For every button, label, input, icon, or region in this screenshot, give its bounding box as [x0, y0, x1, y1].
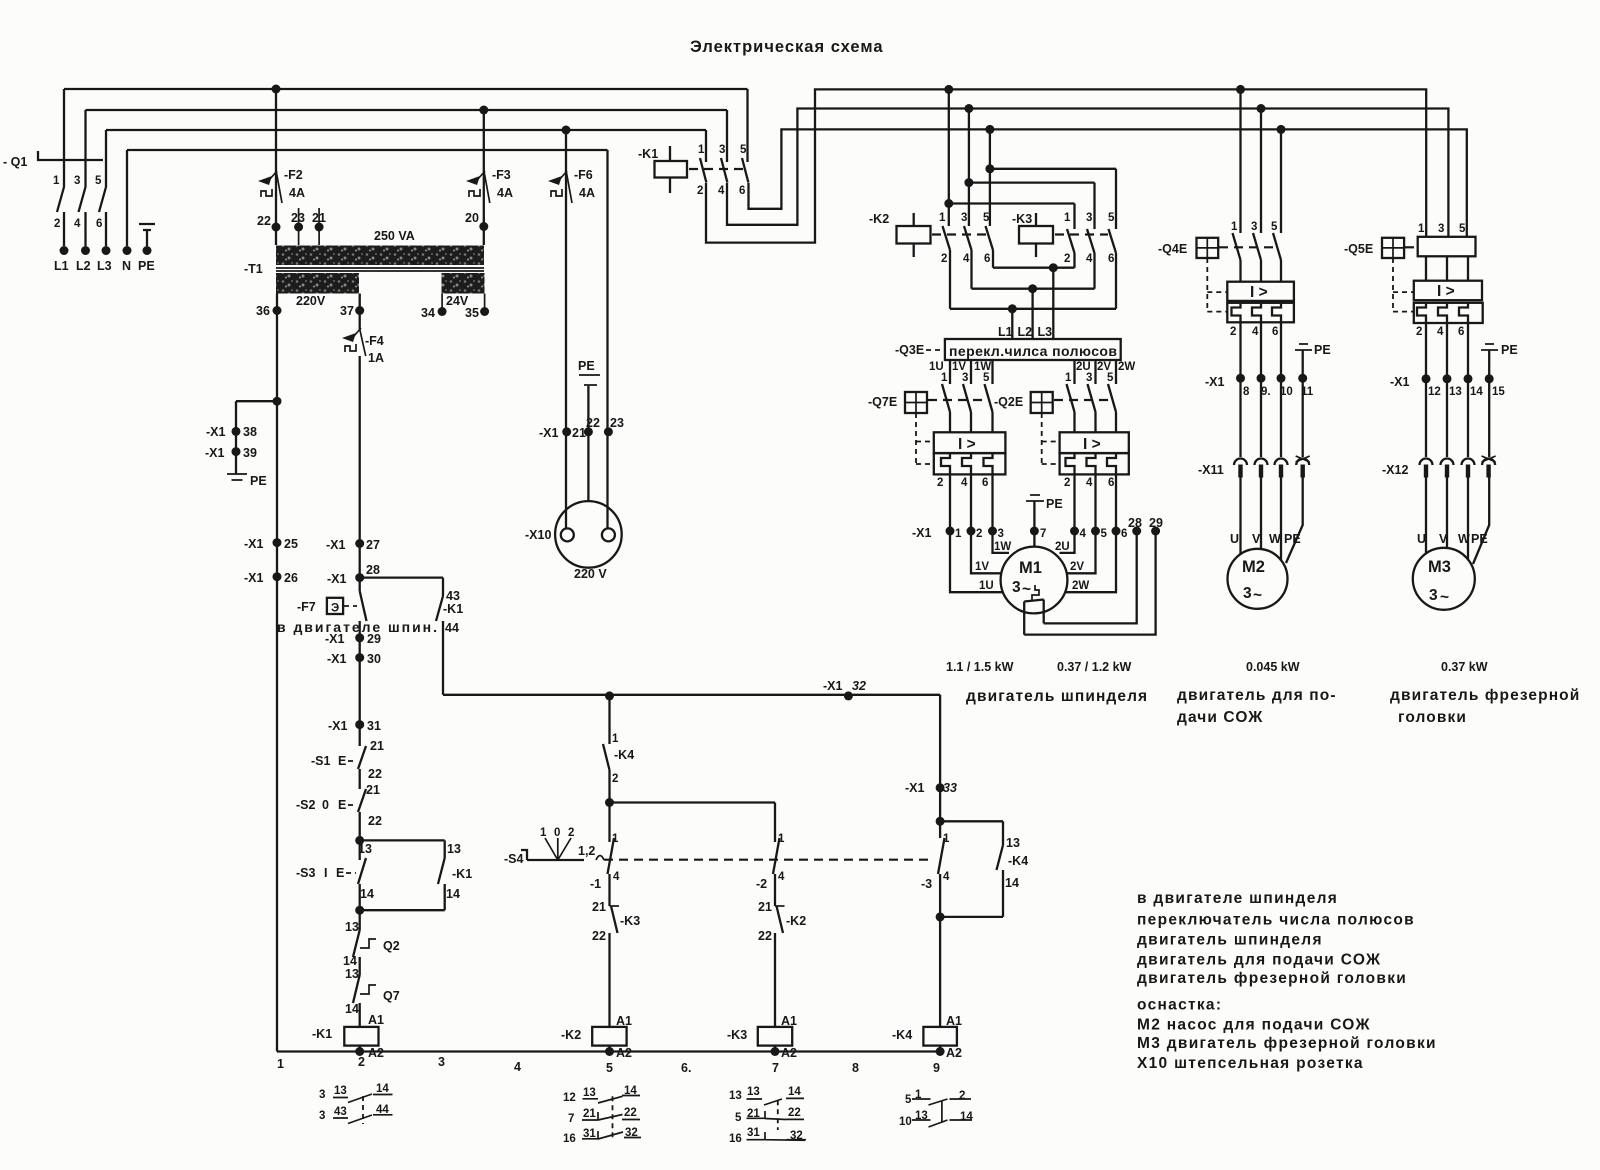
svg-text:I >: I >	[958, 436, 976, 453]
svg-text:0: 0	[322, 798, 329, 812]
svg-text:U: U	[1417, 532, 1426, 546]
svg-text:4: 4	[778, 871, 785, 883]
svg-text:N: N	[122, 259, 131, 273]
svg-text:-X1: -X1	[539, 426, 559, 440]
svg-text:13: 13	[915, 1110, 928, 1122]
svg-text:220 V: 220 V	[574, 567, 607, 581]
svg-text:22: 22	[592, 929, 606, 943]
svg-text:4A: 4A	[579, 186, 595, 200]
svg-text:V: V	[1439, 532, 1448, 546]
svg-text:-K4: -K4	[1008, 854, 1028, 868]
svg-text:2U: 2U	[1055, 541, 1070, 553]
svg-text:Q2: Q2	[383, 939, 400, 953]
svg-text:2: 2	[697, 185, 703, 197]
svg-text:M3: M3	[1428, 558, 1451, 576]
svg-text:2: 2	[937, 477, 943, 489]
svg-text:-F4: -F4	[365, 334, 384, 348]
svg-text:5: 5	[1108, 212, 1115, 224]
svg-text:14: 14	[343, 954, 357, 968]
svg-text:-S3: -S3	[296, 866, 316, 880]
svg-text:1: 1	[53, 175, 60, 187]
svg-text:43: 43	[446, 589, 460, 603]
svg-text:-Q5Ε: -Q5Ε	[1344, 242, 1373, 256]
svg-text:-K1: -K1	[452, 867, 472, 881]
svg-text:5: 5	[1101, 528, 1108, 540]
svg-text:32: 32	[852, 679, 866, 693]
svg-text:оснастка:: оснастка:	[1137, 997, 1222, 1014]
svg-text:PE: PE	[1314, 343, 1331, 357]
svg-text:-F3: -F3	[492, 168, 511, 182]
svg-text:-X1: -X1	[1390, 375, 1410, 389]
svg-text:PE: PE	[1501, 343, 1518, 357]
svg-text:1,2: 1,2	[578, 844, 595, 858]
svg-text:13: 13	[334, 1085, 347, 1097]
svg-text:-X11: -X11	[1198, 463, 1224, 477]
svg-text:2: 2	[1064, 253, 1070, 265]
svg-text:32: 32	[790, 1130, 803, 1142]
svg-text:6: 6	[1121, 528, 1127, 540]
svg-text:X10 штепсельная розетка: X10 штепсельная розетка	[1137, 1055, 1364, 1072]
svg-text:0.37 kW: 0.37 kW	[1441, 660, 1488, 674]
svg-text:4: 4	[74, 218, 81, 230]
svg-text:2: 2	[1064, 477, 1070, 489]
svg-text:38: 38	[243, 425, 257, 439]
svg-text:6: 6	[984, 253, 990, 265]
svg-text:М3 двигатель фрезерной головки: М3 двигатель фрезерной головки	[1137, 1035, 1437, 1052]
svg-text:3: 3	[1438, 223, 1444, 235]
svg-text:13: 13	[345, 920, 359, 934]
svg-text:22: 22	[624, 1107, 637, 1119]
svg-text:1: 1	[612, 733, 619, 745]
svg-text:-K1: -K1	[312, 1027, 332, 1041]
svg-text:36: 36	[256, 304, 270, 318]
svg-text:3: 3	[1243, 585, 1252, 602]
svg-text:31: 31	[367, 719, 381, 733]
svg-text:5: 5	[983, 372, 990, 384]
svg-text:1U: 1U	[979, 580, 994, 592]
svg-text:6: 6	[1108, 477, 1114, 489]
svg-text:43: 43	[334, 1106, 347, 1118]
svg-text:-X12: -X12	[1382, 463, 1408, 477]
svg-text:~: ~	[1253, 587, 1262, 604]
svg-text:3: 3	[319, 1110, 325, 1122]
svg-text:29: 29	[367, 632, 381, 646]
svg-text:21: 21	[370, 739, 384, 753]
svg-text:1: 1	[778, 833, 785, 845]
svg-text:21: 21	[583, 1108, 596, 1120]
svg-text:-X1: -X1	[205, 446, 225, 460]
svg-text:6: 6	[1108, 253, 1114, 265]
svg-text:7: 7	[1040, 528, 1046, 540]
svg-text:-K4: -K4	[614, 748, 634, 762]
svg-text:переключатель числа полюсов: переключатель числа полюсов	[1137, 912, 1415, 929]
svg-text:-T1: -T1	[244, 262, 263, 276]
svg-text:31: 31	[747, 1127, 760, 1139]
svg-text:-2: -2	[756, 877, 767, 891]
svg-text:M2: M2	[1242, 558, 1265, 576]
svg-text:A1: A1	[781, 1014, 797, 1028]
svg-text:1: 1	[955, 528, 962, 540]
svg-text:4: 4	[718, 185, 725, 197]
svg-text:3: 3	[1086, 372, 1092, 384]
svg-text:~: ~	[1440, 589, 1449, 606]
svg-text:1: 1	[939, 212, 946, 224]
svg-text:3: 3	[74, 175, 80, 187]
svg-text:PE: PE	[250, 474, 267, 488]
svg-text:15: 15	[1492, 386, 1505, 398]
svg-text:6: 6	[739, 185, 745, 197]
svg-text:13: 13	[345, 967, 359, 981]
svg-text:22: 22	[788, 1107, 801, 1119]
svg-text:головки: головки	[1398, 709, 1467, 726]
svg-text:21: 21	[747, 1108, 760, 1120]
svg-text:0: 0	[554, 827, 560, 839]
svg-text:4: 4	[613, 871, 620, 883]
svg-text:14: 14	[1470, 386, 1483, 398]
svg-text:-X1: -X1	[1205, 375, 1225, 389]
svg-text:A1: A1	[368, 1013, 384, 1027]
svg-text:5: 5	[983, 212, 990, 224]
svg-text:21: 21	[758, 900, 772, 914]
svg-text:13: 13	[747, 1086, 760, 1098]
svg-text:14: 14	[1005, 876, 1019, 890]
svg-text:7: 7	[568, 1113, 574, 1125]
svg-text:1: 1	[941, 372, 948, 384]
svg-text:3: 3	[1429, 587, 1438, 604]
svg-text:-Q4Ε: -Q4Ε	[1158, 242, 1187, 256]
svg-text:2W: 2W	[1118, 361, 1135, 373]
svg-text:A2: A2	[781, 1046, 797, 1060]
svg-text:A1: A1	[616, 1014, 632, 1028]
svg-text:M1: M1	[1019, 559, 1042, 577]
svg-text:-X1: -X1	[326, 538, 346, 552]
svg-text:2: 2	[1230, 326, 1236, 338]
svg-text:2: 2	[568, 827, 574, 839]
svg-text:L3: L3	[1038, 325, 1053, 339]
svg-text:L2: L2	[76, 259, 91, 273]
svg-text:L2: L2	[1018, 325, 1033, 339]
svg-text:PE: PE	[1284, 532, 1301, 546]
svg-text:5: 5	[1107, 372, 1114, 384]
svg-text:25: 25	[284, 537, 298, 551]
svg-text:1: 1	[612, 833, 619, 845]
svg-text:W: W	[1458, 532, 1470, 546]
svg-text:-K2: -K2	[869, 212, 889, 226]
svg-text:7: 7	[772, 1061, 779, 1075]
svg-text:двигатель для по-: двигатель для по-	[1177, 687, 1337, 704]
svg-text:13: 13	[447, 842, 461, 856]
svg-text:-X1: -X1	[327, 572, 347, 586]
svg-text:A1: A1	[946, 1014, 962, 1028]
svg-text:L3: L3	[97, 259, 112, 273]
svg-text:-X1: -X1	[327, 652, 347, 666]
svg-text:39: 39	[243, 446, 257, 460]
svg-text:V: V	[1252, 532, 1261, 546]
svg-text:3: 3	[319, 1089, 325, 1101]
svg-text:31: 31	[583, 1128, 596, 1140]
svg-text:4: 4	[943, 871, 950, 883]
svg-text:Электрическая схема: Электрическая схема	[690, 38, 884, 56]
svg-text:1.1 / 1.5 kW: 1.1 / 1.5 kW	[946, 660, 1014, 674]
svg-text:4: 4	[1252, 326, 1259, 338]
svg-text:2V: 2V	[1070, 561, 1084, 573]
svg-text:22: 22	[257, 214, 271, 228]
svg-text:10: 10	[899, 1116, 912, 1128]
svg-text:-K4: -K4	[892, 1028, 912, 1042]
svg-text:Ε: Ε	[336, 866, 344, 880]
svg-text:двигатель фрезерной головки: двигатель фрезерной головки	[1137, 970, 1407, 987]
svg-text:-F2: -F2	[284, 168, 303, 182]
svg-text:двигатель шпинделя: двигатель шпинделя	[1137, 932, 1323, 949]
svg-text:-F6: -F6	[574, 168, 593, 182]
svg-text:22: 22	[368, 767, 382, 781]
svg-text:дачи СОЖ: дачи СОЖ	[1177, 709, 1263, 726]
svg-text:4: 4	[961, 477, 968, 489]
svg-text:Q7: Q7	[383, 989, 400, 1003]
svg-text:5: 5	[1271, 221, 1278, 233]
svg-text:6: 6	[96, 218, 102, 230]
svg-text:-S2: -S2	[296, 798, 316, 812]
svg-text:9.: 9.	[1261, 386, 1271, 398]
svg-text:3: 3	[1012, 579, 1021, 596]
svg-text:PE: PE	[1471, 532, 1488, 546]
svg-text:A2: A2	[616, 1046, 632, 1060]
svg-text:30: 30	[367, 652, 381, 666]
svg-text:21: 21	[366, 783, 380, 797]
svg-text:2: 2	[959, 1090, 965, 1102]
svg-text:Ε: Ε	[338, 754, 346, 768]
svg-text:2: 2	[358, 1055, 365, 1069]
svg-text:-S4: -S4	[504, 852, 524, 866]
svg-text:250 VA: 250 VA	[374, 229, 415, 243]
svg-text:5: 5	[735, 1112, 742, 1124]
svg-text:32: 32	[625, 1127, 638, 1139]
svg-text:-X1: -X1	[325, 632, 345, 646]
svg-text:1: 1	[540, 827, 547, 839]
svg-text:-3: -3	[921, 877, 932, 891]
svg-text:-K2: -K2	[561, 1028, 581, 1042]
svg-text:1: 1	[1231, 221, 1238, 233]
svg-text:14: 14	[376, 1083, 389, 1095]
svg-text:0.37 / 1.2 kW: 0.37 / 1.2 kW	[1057, 660, 1132, 674]
svg-text:-X1: -X1	[905, 781, 925, 795]
svg-text:двигатель шпинделя: двигатель шпинделя	[966, 688, 1148, 705]
svg-text:14: 14	[788, 1086, 801, 1098]
svg-text:-Q3Ε: -Q3Ε	[895, 343, 924, 357]
svg-text:A2: A2	[368, 1046, 384, 1060]
svg-text:-K3: -K3	[1012, 212, 1032, 226]
svg-text:двигатель фрезерной: двигатель фрезерной	[1390, 687, 1580, 704]
svg-text:1: 1	[277, 1057, 284, 1071]
svg-text:20: 20	[465, 211, 479, 225]
svg-text:13: 13	[1006, 836, 1020, 850]
svg-text:21: 21	[572, 426, 586, 440]
svg-text:14: 14	[624, 1085, 637, 1097]
svg-text:-Q2Ε: -Q2Ε	[994, 395, 1023, 409]
svg-text:PE: PE	[138, 259, 155, 273]
svg-text:14: 14	[446, 887, 460, 901]
svg-text:3: 3	[962, 372, 968, 384]
svg-text:5: 5	[740, 144, 747, 156]
svg-text:3: 3	[998, 528, 1004, 540]
svg-text:-K3: -K3	[620, 914, 640, 928]
svg-text:-Q7Ε: -Q7Ε	[868, 395, 897, 409]
svg-text:5: 5	[606, 1061, 613, 1075]
svg-text:12: 12	[1428, 386, 1441, 398]
svg-text:4: 4	[1080, 528, 1087, 540]
svg-text:4: 4	[1086, 477, 1093, 489]
svg-text:1: 1	[1064, 212, 1071, 224]
svg-text:1: 1	[698, 144, 705, 156]
svg-text:0.045 kW: 0.045 kW	[1246, 660, 1300, 674]
svg-text:4: 4	[1086, 253, 1093, 265]
svg-text:в двигателе шпин.: в двигателе шпин.	[277, 619, 437, 635]
svg-text:I >: I >	[1250, 284, 1268, 301]
svg-text:37: 37	[340, 304, 354, 318]
svg-text:1A: 1A	[368, 351, 384, 365]
svg-text:220V: 220V	[296, 294, 326, 308]
svg-text:4: 4	[963, 253, 970, 265]
svg-text:5: 5	[95, 175, 102, 187]
svg-text:2: 2	[976, 528, 982, 540]
svg-text:-F7: -F7	[297, 600, 316, 614]
svg-text:~: ~	[1022, 581, 1031, 598]
svg-text:35: 35	[465, 306, 479, 320]
svg-text:4: 4	[514, 1060, 521, 1074]
svg-text:2W: 2W	[1072, 580, 1089, 592]
svg-text:44: 44	[376, 1104, 389, 1116]
svg-text:2: 2	[54, 218, 60, 230]
svg-text:3: 3	[1251, 221, 1257, 233]
svg-text:6: 6	[1272, 326, 1278, 338]
svg-text:2: 2	[1416, 326, 1422, 338]
svg-text:14: 14	[360, 887, 374, 901]
svg-text:-S1: -S1	[311, 754, 331, 768]
svg-text:8: 8	[852, 1061, 859, 1075]
svg-text:I: I	[324, 866, 327, 880]
svg-text:в двигателе шпинделя: в двигателе шпинделя	[1137, 890, 1338, 907]
svg-text:двигатель для подачи СОЖ: двигатель для подачи СОЖ	[1137, 952, 1381, 969]
svg-text:26: 26	[284, 571, 298, 585]
svg-text:34: 34	[421, 306, 435, 320]
svg-text:33: 33	[943, 781, 957, 795]
svg-text:13: 13	[1449, 386, 1462, 398]
svg-text:-1: -1	[590, 877, 601, 891]
svg-text:13: 13	[729, 1090, 742, 1102]
svg-text:2: 2	[612, 773, 618, 785]
svg-text:4: 4	[1437, 326, 1444, 338]
svg-text:6: 6	[1458, 326, 1464, 338]
svg-text:-X1: -X1	[244, 537, 264, 551]
svg-text:13: 13	[583, 1087, 596, 1099]
svg-text:1: 1	[943, 833, 950, 845]
svg-text:W: W	[1269, 532, 1281, 546]
svg-text:1: 1	[915, 1089, 922, 1101]
svg-text:23: 23	[610, 416, 624, 430]
svg-text:22: 22	[368, 814, 382, 828]
svg-text:8: 8	[1243, 386, 1250, 398]
svg-text:3: 3	[719, 144, 725, 156]
svg-text:44: 44	[445, 621, 459, 635]
svg-text:16: 16	[563, 1133, 576, 1145]
svg-text:27: 27	[366, 538, 380, 552]
svg-text:перекл.чилса полюсов: перекл.чилса полюсов	[949, 343, 1117, 359]
svg-text:1V: 1V	[975, 561, 989, 573]
svg-text:28: 28	[366, 563, 380, 577]
svg-text:6.: 6.	[681, 1061, 691, 1075]
svg-text:I >: I >	[1437, 283, 1455, 300]
svg-text:12: 12	[563, 1092, 576, 1104]
svg-text:6: 6	[982, 477, 988, 489]
svg-text:-X10: -X10	[525, 528, 551, 542]
svg-text:L1: L1	[54, 259, 69, 273]
svg-text:PE: PE	[1046, 497, 1063, 511]
svg-text:-K2: -K2	[786, 914, 806, 928]
svg-text:5: 5	[905, 1094, 912, 1106]
svg-text:16: 16	[729, 1133, 742, 1145]
svg-text:9: 9	[933, 1061, 940, 1075]
svg-text:4A: 4A	[289, 186, 305, 200]
svg-text:М2 насос для подачи СОЖ: М2 насос для подачи СОЖ	[1137, 1017, 1371, 1034]
svg-text:I >: I >	[1083, 436, 1101, 453]
svg-text:1: 1	[1418, 223, 1425, 235]
svg-text:-X1: -X1	[206, 425, 226, 439]
svg-text:U: U	[1230, 532, 1239, 546]
svg-text:5: 5	[1459, 223, 1466, 235]
svg-text:L1: L1	[998, 325, 1013, 339]
svg-text:- Q1: - Q1	[3, 155, 27, 169]
svg-text:-X1: -X1	[912, 526, 932, 540]
svg-text:A2: A2	[946, 1046, 962, 1060]
svg-text:3: 3	[438, 1055, 445, 1069]
svg-text:2: 2	[941, 253, 947, 265]
svg-text:3: 3	[1086, 212, 1092, 224]
svg-text:-X1: -X1	[328, 719, 348, 733]
svg-text:PE: PE	[578, 359, 595, 373]
svg-text:14: 14	[960, 1111, 973, 1123]
svg-text:22: 22	[758, 929, 772, 943]
svg-text:1W: 1W	[994, 541, 1011, 553]
svg-text:-K1: -K1	[443, 602, 463, 616]
svg-text:3: 3	[961, 212, 967, 224]
svg-text:4A: 4A	[497, 186, 513, 200]
svg-text:Ε: Ε	[338, 798, 346, 812]
svg-text:-X1: -X1	[244, 571, 264, 585]
svg-text:-K1: -K1	[638, 147, 658, 161]
svg-text:Э: Э	[331, 603, 339, 615]
svg-text:1: 1	[1065, 372, 1072, 384]
svg-text:21: 21	[592, 900, 606, 914]
svg-text:14: 14	[345, 1002, 359, 1016]
svg-text:-K3: -K3	[727, 1028, 747, 1042]
svg-text:-X1: -X1	[823, 679, 843, 693]
